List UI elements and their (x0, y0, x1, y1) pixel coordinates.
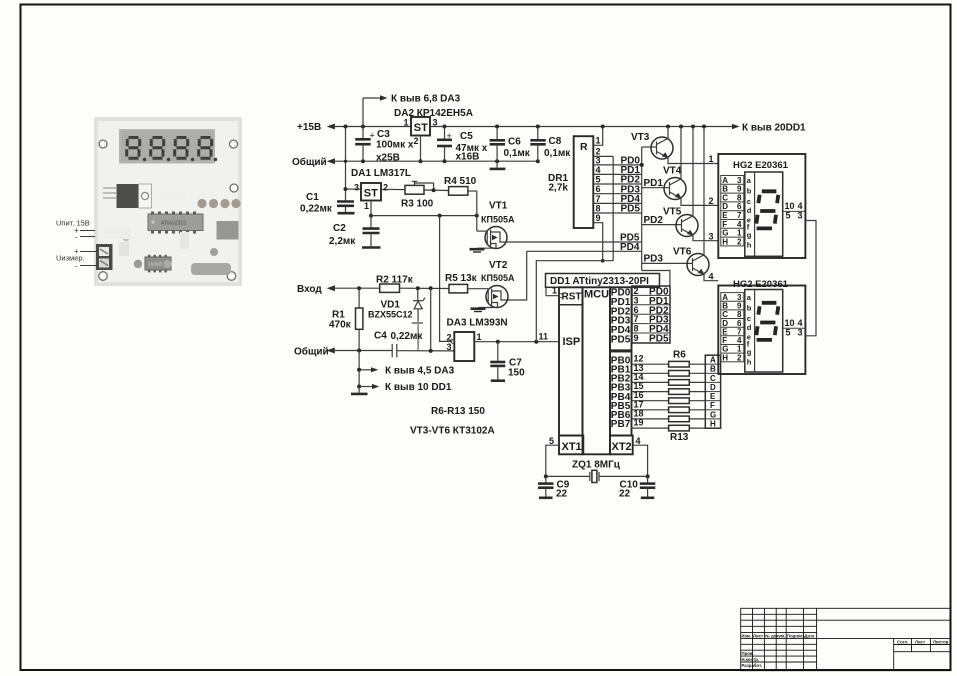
svg-text:22: 22 (556, 489, 568, 500)
svg-text:PD4: PD4 (620, 242, 640, 253)
voltage regulator DA1 (354, 183, 388, 212)
wire DA1 pin1 node (370, 201, 372, 216)
wire to pins 4,5 DA3 (358, 351, 360, 387)
svg-text:1: 1 (364, 201, 369, 211)
svg-text:4: 4 (596, 165, 601, 175)
svg-text:22: 22 (619, 489, 631, 500)
wire PD5 net (VT1 drain) (507, 241, 642, 243)
svg-text:7: 7 (596, 194, 601, 204)
svg-text:4: 4 (737, 220, 742, 229)
left columns (752, 608, 754, 670)
svg-text:C: C (722, 310, 728, 319)
trimmer R3 (401, 181, 434, 209)
svg-text:5: 5 (549, 436, 554, 446)
wire input row (333, 287, 380, 289)
svg-text:0,1мк: 0,1мк (504, 148, 531, 159)
right section (893, 638, 895, 670)
capacitor C8 (530, 127, 571, 162)
svg-text:1: 1 (737, 229, 742, 238)
comparator DA3 LM393N (447, 318, 508, 362)
svg-text:Согл.: Согл. (897, 639, 908, 644)
resistor R13 (669, 425, 690, 431)
svg-text:VT6: VT6 (673, 247, 692, 258)
svg-text:10: 10 (785, 201, 795, 211)
wire R12 to node G (689, 418, 705, 420)
svg-text:№ докум.: № докум. (765, 633, 785, 638)
svg-text:7: 7 (737, 211, 742, 220)
svg-text:H: H (722, 353, 728, 362)
svg-text:Подпись: Подпись (787, 633, 806, 638)
HG2.1 pin ladder (721, 176, 744, 246)
DD1 XT1 box (559, 436, 583, 455)
resistor R8 (669, 380, 690, 386)
svg-text:E: E (722, 327, 728, 336)
svg-text:D: D (710, 383, 716, 392)
svg-text:ZQ1 8МГц: ZQ1 8МГц (572, 460, 621, 471)
PCB digit 4 (199, 138, 212, 159)
svg-text:R6-R13 150: R6-R13 150 (431, 406, 485, 417)
svg-text:C: C (722, 193, 728, 202)
svg-text:8: 8 (737, 310, 742, 319)
svg-text:h: h (747, 358, 752, 367)
resistor R1 (329, 288, 363, 350)
svg-text:КП505А: КП505А (481, 215, 515, 225)
transistor VT3 (631, 127, 718, 164)
wire +5V rail (DA2 out) (430, 126, 733, 128)
svg-text:BZX55C12: BZX55C12 (368, 309, 413, 319)
svg-text:R5 13к: R5 13к (445, 273, 478, 284)
svg-text:MCU: MCU (584, 289, 609, 301)
svg-text:A: A (722, 176, 728, 185)
svg-text:VT5: VT5 (663, 207, 682, 218)
svg-text:RST: RST (562, 291, 582, 302)
PCB mounting holes (99, 140, 238, 280)
svg-text:XT2: XT2 (612, 441, 632, 453)
wire DA2 pin2 to common (420, 136, 422, 162)
svg-text:Изм.: Изм. (742, 633, 752, 638)
svg-text:B: B (722, 185, 728, 194)
svg-text:С6: С6 (508, 137, 521, 148)
wire VT3 base (642, 146, 657, 148)
svg-text:0,22мк: 0,22мк (300, 204, 333, 215)
svg-text:С8: С8 (549, 136, 562, 147)
svg-text:1: 1 (477, 332, 482, 342)
capacitor C2 (329, 216, 381, 248)
svg-text:Пров.: Пров. (742, 651, 754, 656)
capacitor C6 (490, 127, 531, 162)
svg-text:1: 1 (596, 136, 601, 146)
svg-text:ISP: ISP (563, 336, 581, 348)
transistor VT6 (673, 127, 718, 281)
svg-text:8: 8 (596, 203, 601, 213)
HG2.2 digit 8 (756, 303, 778, 340)
svg-text:VT4: VT4 (663, 166, 682, 177)
svg-text:Разработ.: Разработ. (742, 663, 763, 668)
svg-text:К выв 6,8 DA3: К выв 6,8 DA3 (391, 94, 461, 105)
HG2.2 segment letters a-h (747, 293, 752, 367)
PCB LM393 chip (145, 255, 171, 273)
svg-text:VT3: VT3 (631, 132, 650, 143)
wire pull-up net DR1 pin2/pin9 to output (536, 261, 613, 342)
svg-text:3: 3 (798, 211, 803, 221)
svg-text:ST: ST (414, 122, 428, 134)
wire reference down to DA3 pin2 (440, 216, 453, 342)
svg-text:5: 5 (596, 174, 601, 184)
svg-text:E: E (710, 392, 716, 401)
svg-text:3: 3 (737, 176, 742, 185)
svg-text:A: A (710, 356, 716, 365)
transistor VT5 (663, 127, 718, 241)
svg-text:5: 5 (786, 328, 791, 338)
PCB decimal points (143, 158, 217, 161)
svg-text:XT1: XT1 (562, 441, 582, 453)
DD1 PD label column (610, 287, 632, 350)
svg-text:2: 2 (414, 136, 419, 146)
svg-text:B: B (710, 365, 716, 374)
capacitor C5 (437, 127, 488, 163)
svg-text:b: b (747, 304, 752, 313)
svg-text:b: b (747, 187, 752, 196)
wire VT2 drain to PD4 (508, 251, 527, 300)
svg-text:E: E (722, 211, 728, 220)
svg-text:7: 7 (737, 327, 742, 336)
microcontroller DD1 ATtiny2313-20PI (546, 274, 660, 288)
svg-text:HG2 E20361: HG2 E20361 (733, 160, 789, 171)
wire R7 to node B (689, 372, 705, 374)
capacitor C9 (538, 476, 570, 499)
resistor network DR1 2,7k (548, 136, 593, 228)
resistor R2 (376, 275, 414, 293)
ground under common rail (496, 161, 498, 167)
svg-text:-: - (75, 262, 78, 271)
svg-text:H: H (722, 237, 728, 246)
resistor R4 (444, 176, 477, 195)
svg-text:H: H (710, 420, 716, 429)
svg-text:Лист: Лист (915, 639, 925, 644)
arrow +15V (327, 124, 335, 130)
wire to pin 10 DD1 (357, 385, 361, 389)
transistor VT2 КП505А (479, 260, 515, 308)
wire R10 to node E (689, 400, 705, 402)
wire input node down to DA3 pin3 (430, 288, 432, 351)
capacitor C10 (619, 476, 655, 499)
svg-text:PD5: PD5 (649, 334, 669, 345)
svg-text:c: c (747, 197, 751, 206)
wire R13 to node H (689, 427, 705, 429)
wire DA3 output to DD1 pin11 (474, 341, 559, 343)
svg-text:Листов: Листов (933, 639, 949, 644)
wire R4 to VT1 gate (468, 190, 477, 192)
svg-text:х25В: х25В (376, 153, 400, 164)
resistor R11 (669, 407, 690, 413)
svg-text:G: G (722, 229, 728, 238)
svg-text:HG2 E20361: HG2 E20361 (733, 279, 789, 290)
svg-text:c: c (747, 314, 751, 323)
capacitor C1 (300, 189, 355, 214)
HG2.2 digit box (745, 290, 783, 373)
wire R8 to node C (689, 381, 705, 383)
PCB digit 3 (175, 138, 188, 159)
svg-text:Лист: Лист (753, 633, 763, 638)
resistor R12 (669, 416, 690, 422)
svg-text:3: 3 (596, 155, 601, 165)
svg-text:1: 1 (404, 118, 409, 128)
svg-text:3: 3 (447, 342, 452, 352)
ground below R1 branch (358, 387, 360, 393)
PCB terminal block (96, 244, 113, 270)
resistor R7 (669, 371, 690, 377)
DD1 RST/ISP column (559, 287, 583, 435)
svg-text:Uпит. 15В: Uпит. 15В (56, 219, 90, 228)
svg-text:2: 2 (737, 353, 742, 362)
DD1 MCU column (583, 287, 611, 454)
svg-text:С5: С5 (460, 131, 473, 142)
svg-text:+: + (447, 131, 452, 141)
svg-text:VT3-VT6 КТ3102А: VT3-VT6 КТ3102А (410, 426, 495, 437)
svg-text:R: R (580, 141, 588, 153)
svg-text:2: 2 (737, 237, 742, 246)
svg-text:G: G (710, 410, 716, 419)
LED display module on PCB (119, 129, 215, 164)
svg-text:Uизмер.: Uизмер. (56, 254, 85, 263)
svg-text:Н.контр.: Н.контр. (742, 657, 760, 662)
svg-text:КП505А: КП505А (481, 273, 515, 283)
PCB ATtiny2313 chip (148, 212, 203, 234)
svg-text:DA1 LM317L: DA1 LM317L (351, 168, 411, 179)
svg-text:R3 100: R3 100 (401, 199, 434, 210)
svg-text:1: 1 (552, 286, 557, 296)
svg-text:2: 2 (383, 183, 388, 193)
HG2.1 digit 8 (756, 191, 778, 228)
svg-text:470к: 470к (329, 320, 352, 331)
svg-text:PB7: PB7 (611, 419, 631, 430)
svg-text:Вход: Вход (297, 284, 322, 295)
DD1 port D pin block (632, 286, 670, 343)
resistor R9 (669, 389, 690, 395)
resistor R5 (445, 273, 478, 293)
svg-text:ATtiny2313: ATtiny2313 (161, 221, 186, 227)
HG2.2 pin ladder (721, 293, 744, 362)
svg-text:a: a (747, 176, 752, 185)
svg-text:VT1: VT1 (489, 201, 508, 212)
svg-text:С3: С3 (377, 129, 390, 140)
seven-segment display HG2 (lower) E20361 (718, 279, 805, 374)
svg-text:-: - (75, 233, 78, 242)
svg-text:d: d (747, 323, 752, 332)
segment node column A-H (705, 355, 720, 428)
wire common rail (333, 160, 538, 162)
svg-text:D: D (722, 202, 728, 211)
wire R9 to node D (689, 391, 705, 393)
svg-text:9: 9 (737, 185, 742, 194)
capacitor C7 (490, 342, 525, 381)
svg-text:LM393: LM393 (149, 262, 163, 267)
PCB misc components (217, 221, 239, 240)
svg-text:3: 3 (737, 293, 742, 302)
capacitor C3 (355, 127, 414, 164)
svg-text:9: 9 (596, 213, 601, 223)
HG2.1 digit box (745, 172, 783, 256)
svg-text:F: F (722, 220, 727, 229)
svg-text:h: h (747, 241, 752, 250)
svg-text:Дата: Дата (805, 633, 816, 638)
svg-text:150: 150 (508, 368, 525, 379)
svg-text:R6: R6 (673, 350, 686, 361)
svg-text:4: 4 (798, 318, 803, 328)
svg-text:4: 4 (798, 201, 803, 211)
svg-text:R4 510: R4 510 (444, 176, 477, 187)
svg-text:DA3 LM393N: DA3 LM393N (447, 318, 508, 329)
svg-text:2,7k: 2,7k (549, 183, 569, 194)
HG2.1 segment letters a-h (747, 176, 752, 250)
svg-text:3: 3 (709, 231, 714, 241)
svg-text:PD5: PD5 (611, 335, 631, 346)
PCB digit 1 (127, 138, 140, 159)
wire PD bus vertical (641, 147, 643, 271)
wire R6 to node A (689, 363, 705, 365)
PCB round pads (197, 199, 240, 208)
svg-text:+15В: +15В (297, 122, 321, 133)
zener diode VD1 BZX55C12 (368, 288, 425, 350)
ground VT1 source (470, 248, 485, 251)
svg-text:R2 117к: R2 117к (376, 275, 414, 286)
svg-text:С1: С1 (306, 192, 319, 203)
capacitor C4 (374, 331, 454, 358)
svg-text:К выв 10 DD1: К выв 10 DD1 (385, 382, 452, 393)
svg-text:g: g (747, 348, 752, 357)
svg-text:R13: R13 (670, 432, 689, 443)
svg-text:0,22мк: 0,22мк (391, 331, 424, 342)
svg-text:10: 10 (785, 318, 795, 328)
svg-text:19: 19 (634, 418, 644, 428)
wire +15V down to DA1 pin3 (345, 127, 347, 190)
PCB board photo (95, 118, 241, 285)
svg-text:2,2мк: 2,2мк (329, 236, 356, 247)
svg-text:a: a (747, 293, 752, 302)
svg-text:A: A (722, 293, 728, 302)
svg-text:К выв 4,5 DA3: К выв 4,5 DA3 (385, 365, 455, 376)
crystal ZQ1 8МГц (544, 460, 650, 483)
svg-text:d: d (747, 206, 752, 215)
PCB voltage regulator (103, 184, 152, 208)
svg-text:VT2: VT2 (489, 260, 508, 271)
svg-text:0,1мк: 0,1мк (544, 148, 571, 159)
wire branch to pins 6,8 DA3 (362, 98, 364, 127)
svg-text:g: g (747, 231, 752, 240)
label Uизмер. (56, 247, 96, 271)
svg-text:Общий: Общий (292, 156, 327, 168)
svg-text:G: G (722, 345, 728, 354)
svg-text:2: 2 (709, 196, 714, 206)
resistor R10 (669, 398, 690, 404)
ground VT2 source (471, 307, 486, 310)
wire R11 to node F (689, 409, 705, 411)
svg-text:3: 3 (354, 183, 359, 193)
svg-text:C: C (710, 374, 716, 383)
svg-text:9: 9 (634, 333, 639, 343)
svg-text:х16В: х16В (456, 152, 480, 163)
wire PD4 net (527, 250, 642, 252)
svg-text:ST: ST (364, 188, 378, 200)
svg-text:4: 4 (709, 271, 714, 281)
transistor VT1 КП505А (477, 201, 515, 249)
svg-text:100мк х: 100мк х (376, 140, 414, 151)
wire +15V rail (333, 126, 411, 128)
left rows (741, 613, 817, 615)
svg-text:3: 3 (798, 328, 803, 338)
svg-text:1: 1 (737, 345, 742, 354)
svg-text:2: 2 (447, 333, 452, 343)
svg-text:С4: С4 (374, 331, 387, 342)
svg-text:PD5: PD5 (621, 204, 641, 215)
svg-text:К выв 20DD1: К выв 20DD1 (742, 123, 806, 134)
seven-segment display HG2 (upper) E20361 (718, 154, 805, 258)
DD1 XT2 box (610, 436, 633, 455)
svg-text:С2: С2 (333, 223, 346, 234)
voltage regulator DA2 (404, 117, 438, 146)
svg-text:1: 1 (709, 154, 714, 164)
DD1 PB label column (610, 352, 632, 436)
wire DA1 pin2 to R3 (381, 188, 405, 190)
PCB digit 2 (151, 138, 164, 159)
svg-text:6: 6 (596, 184, 601, 194)
label Uпит. 15В (56, 219, 95, 242)
svg-text:4: 4 (636, 436, 641, 446)
svg-text:11: 11 (538, 332, 548, 342)
wire HG2.1 to HG2.2 common (805, 221, 816, 336)
svg-text:8: 8 (737, 193, 742, 202)
svg-text:F: F (710, 401, 715, 410)
transistor VT4 (663, 127, 718, 206)
svg-text:5: 5 (786, 211, 791, 221)
svg-text:6: 6 (737, 202, 742, 211)
svg-text:Общий: Общий (294, 345, 329, 357)
arrow to pin 20 DD1 (732, 124, 740, 129)
svg-text:+: + (370, 131, 375, 141)
